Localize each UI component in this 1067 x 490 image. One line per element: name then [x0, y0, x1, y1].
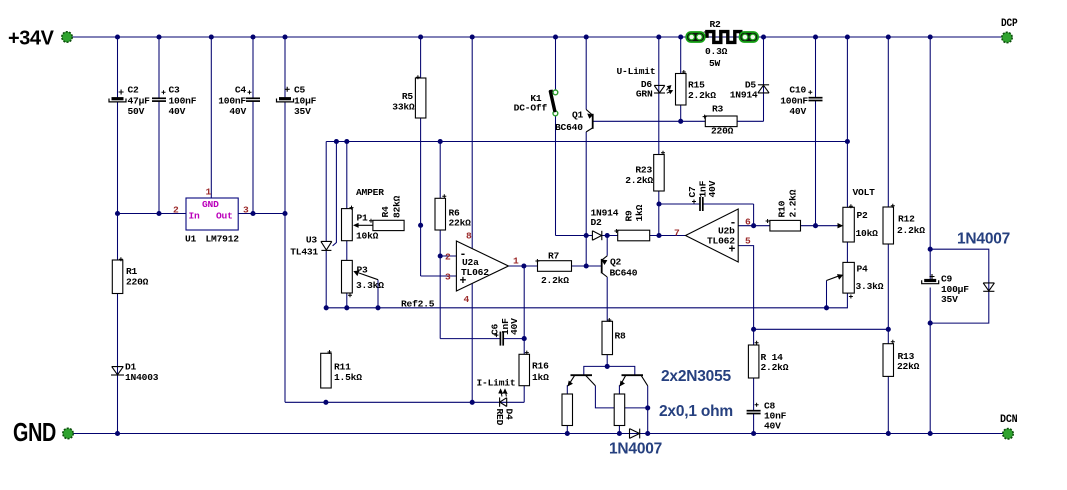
svg-text:2.2kΩ: 2.2kΩ: [761, 362, 789, 373]
wire C9 branch x=930.2: [929, 37, 931, 279]
wire R16 x=524.2: [523, 339, 525, 355]
svg-text:R15: R15: [688, 80, 705, 91]
wire U1 pin1 branch x=211.3: [210, 37, 212, 198]
wire U2a pin3 stub: [421, 275, 457, 277]
svg-text:C9: C9: [941, 274, 953, 285]
resistor R12 2.2k: [883, 204, 895, 244]
wire top rail +34V: [72, 36, 1003, 38]
svg-text:BC640: BC640: [555, 122, 583, 133]
svg-text:DC-Off: DC-Off: [514, 103, 548, 114]
wire right 3055 collector: [647, 386, 649, 434]
junction dot U2a output: [521, 263, 526, 268]
wire Q2 collector down to R8: [606, 277, 608, 321]
diode D1 1N4003: [111, 367, 124, 375]
potentiometer P3 3.3k: [342, 260, 379, 297]
svg-text:C5: C5: [294, 85, 306, 96]
wire Q1 collector to D2 node: [585, 132, 587, 266]
svg-text:1kΩ: 1kΩ: [532, 372, 549, 383]
diode D5 1N914: [758, 85, 769, 93]
wire C10 branch x=815.5: [815, 37, 817, 98]
switch K1 blade: [549, 90, 558, 116]
junction dot R23 C7: [656, 201, 661, 206]
svg-text:RED: RED: [494, 409, 505, 426]
svg-text:2: 2: [445, 252, 451, 263]
svg-text:+: +: [460, 275, 467, 288]
TL431 U3: [321, 241, 332, 250]
svg-text:R1: R1: [126, 266, 138, 277]
wire right 3055 emitter: [618, 386, 621, 394]
svg-text:3: 3: [445, 272, 451, 283]
svg-text:1N4003: 1N4003: [125, 372, 159, 383]
svg-text:2: 2: [173, 205, 179, 216]
svg-text:R11: R11: [334, 362, 351, 373]
wire Q1 emitter from rail: [585, 37, 587, 110]
svg-text:P2: P2: [857, 210, 869, 221]
junction dot y329 right: [886, 327, 891, 332]
wire TL431 branch x=326.2: [325, 142, 327, 242]
svg-text:47µF: 47µF: [128, 96, 151, 107]
resistor R3 220 horizontal: [703, 115, 738, 127]
svg-text:R5: R5: [402, 91, 414, 102]
wire R10 to P2 wiper: [801, 225, 840, 227]
svg-text:3: 3: [243, 205, 249, 216]
resistor R11 1.5k: [321, 350, 332, 388]
svg-text:C7: C7: [687, 186, 698, 198]
svg-text:35V: 35V: [941, 294, 958, 305]
resistor R1 220: [112, 257, 123, 293]
svg-text:R23: R23: [635, 165, 652, 176]
svg-text:VOLT: VOLT: [853, 187, 876, 198]
svg-text:1N914: 1N914: [730, 90, 758, 101]
resistor emitter 0.1ohm right: [614, 394, 625, 426]
junction dots top rail: [115, 34, 120, 39]
resistor R16 1k: [519, 351, 530, 386]
svg-text:50V: 50V: [128, 106, 145, 117]
svg-text:40V: 40V: [169, 106, 186, 117]
svg-text:6: 6: [745, 217, 751, 228]
junction dots mid bus y141: [334, 139, 339, 144]
diode D2 1N914: [592, 231, 601, 240]
svg-text:P4: P4: [857, 264, 869, 275]
transistor 2N3055 right: [620, 375, 648, 386]
capacitor C8 10nF: [747, 403, 761, 414]
wire bottom rail GND: [73, 433, 1003, 435]
svg-text:5: 5: [745, 236, 751, 247]
diode D6 LED GRN: [654, 85, 672, 93]
svg-text:1: 1: [206, 187, 212, 198]
svg-text:100nF: 100nF: [218, 96, 246, 107]
wire U2b pin6 stub: [738, 225, 770, 227]
potentiometer P4 3.3k: [827, 262, 855, 298]
svg-text:Ref2.5: Ref2.5: [401, 299, 435, 310]
resistor R8: [602, 318, 613, 355]
svg-text:33kΩ: 33kΩ: [392, 102, 415, 113]
svg-text:7: 7: [674, 228, 680, 239]
potentiometer P1 10k: [342, 206, 373, 241]
wire R7 to Q2 base: [572, 265, 602, 267]
resistor R23 2.2k: [654, 151, 665, 191]
junction dot pin4 bottom: [470, 400, 475, 405]
svg-text:GRN: GRN: [636, 89, 653, 100]
capacitor C10 100nF: [808, 90, 822, 100]
resistor R4 82k horizontal: [369, 219, 404, 231]
svg-text:10kΩ: 10kΩ: [856, 228, 879, 239]
svg-text:40V: 40V: [509, 318, 520, 335]
junction dots C9 loop: [928, 247, 933, 252]
svg-text:AMPER: AMPER: [356, 187, 384, 198]
svg-text:220Ω: 220Ω: [126, 277, 149, 288]
svg-text:R7: R7: [548, 251, 560, 262]
svg-text:R12: R12: [898, 214, 915, 225]
junction dot 3055 collector node: [645, 405, 650, 410]
junction dots Ref rail: [324, 305, 329, 310]
svg-text:40V: 40V: [707, 180, 718, 197]
resistor R15 2.2k: [676, 70, 687, 105]
junction dot U2a pin2 node: [438, 253, 443, 258]
wire 2N3055 base bus: [584, 366, 635, 375]
junction dot R7 Q2 base: [584, 263, 589, 268]
capacitor C9 100uF electrolytic: [922, 274, 939, 284]
svg-text:1kΩ: 1kΩ: [634, 204, 645, 221]
junction dot R4 node: [418, 223, 423, 228]
diode 1N4007 bottom: [630, 429, 640, 439]
svg-text:8: 8: [466, 231, 472, 242]
wire R6 branch x=440.2: [439, 142, 441, 199]
svg-text:C4: C4: [235, 85, 247, 96]
svg-text:40V: 40V: [789, 106, 806, 117]
svg-text:GND: GND: [13, 419, 56, 447]
svg-text:Q2: Q2: [610, 257, 622, 268]
svg-text:220Ω: 220Ω: [711, 126, 734, 137]
wire R23 bottom node to C7: [659, 203, 700, 205]
wire C2 branch x=117.5: [117, 37, 119, 97]
junction dot R11 bottom: [323, 400, 328, 405]
capacitor C5 10uF electrolytic: [277, 87, 294, 102]
diode 1N4007 right loop: [983, 283, 994, 291]
wire TL431 ref x=336.4: [333, 142, 337, 246]
svg-text:82kΩ: 82kΩ: [392, 195, 403, 218]
svg-text:C6: C6: [490, 323, 501, 335]
svg-text:3.3kΩ: 3.3kΩ: [356, 280, 384, 291]
svg-text:DCN: DCN: [1000, 414, 1018, 426]
terminal GND: [63, 428, 73, 438]
junction dot R10 C10: [813, 223, 818, 228]
wire U2a output branch x=524.2: [508, 265, 537, 267]
junction dots D2 row: [584, 233, 589, 238]
wire C4 branch x=253: [252, 37, 254, 98]
resistor R6 22k: [435, 194, 446, 230]
shunt R2: [686, 30, 758, 42]
junction dot R14 top: [751, 327, 756, 332]
wire C6 row y=338.6: [440, 338, 500, 340]
capacitor C4 100nF: [246, 90, 260, 101]
wire Q1 base row y=121.3: [593, 120, 706, 122]
svg-text:R3: R3: [712, 104, 724, 115]
svg-text:0.3Ω: 0.3Ω: [705, 46, 728, 57]
svg-text:R4: R4: [380, 206, 391, 218]
svg-text:U3: U3: [306, 235, 318, 246]
wire Ref2.5 rail y=307.8: [326, 307, 826, 309]
wire U2a pin8 x=472.2: [471, 37, 473, 249]
svg-text:C10: C10: [789, 85, 806, 96]
svg-text:35V: 35V: [294, 106, 311, 117]
svg-text:2.2kΩ: 2.2kΩ: [897, 225, 925, 236]
resistor R10 2.2k horizontal: [766, 219, 801, 231]
svg-text:DCP: DCP: [1001, 18, 1018, 30]
svg-text:4: 4: [464, 294, 470, 305]
svg-text:P3: P3: [357, 265, 369, 276]
wire R15 branch x=680.7: [680, 37, 682, 74]
svg-text:In: In: [189, 211, 201, 222]
transistor Q2 BC640: [602, 256, 608, 277]
wire 1N4007 loop: [930, 249, 989, 323]
wire P2 branch x=847.4: [846, 37, 848, 207]
svg-text:+: +: [729, 244, 736, 257]
svg-text:-: -: [460, 249, 467, 262]
resistor R7 2.2k horizontal: [535, 259, 571, 271]
resistor R13 22k: [883, 340, 895, 377]
resistor R14 2.2k: [748, 341, 759, 378]
svg-text:2x2N3055: 2x2N3055: [661, 368, 732, 385]
svg-text:2x0,1 ohm: 2x0,1 ohm: [659, 403, 733, 420]
svg-text:2.2kΩ: 2.2kΩ: [541, 275, 569, 286]
junction dot R16 top node: [522, 336, 527, 341]
wire R14 to C8 x=753.6: [753, 378, 755, 411]
wire P1 P3 branch x=346.8: [346, 142, 348, 209]
svg-text:2.2kΩ: 2.2kΩ: [688, 90, 716, 101]
wire R3 right to D5: [737, 120, 763, 122]
junction dots bottom rail: [115, 431, 120, 436]
svg-text:LM7912: LM7912: [206, 234, 240, 245]
wire D6 R23 branch x=658.8: [658, 37, 660, 155]
transistor Q1 BC640: [586, 110, 593, 132]
wire P3 wiper drop x=378: [377, 280, 379, 308]
svg-text:U-Limit: U-Limit: [617, 66, 656, 77]
svg-text:R2: R2: [710, 19, 722, 30]
wire U1 row y=213.5: [118, 213, 187, 215]
svg-text:1N4007: 1N4007: [957, 231, 1010, 248]
capacitor C6 1nF: [494, 332, 503, 346]
svg-text:P1: P1: [357, 213, 369, 224]
svg-text:22kΩ: 22kΩ: [449, 218, 472, 229]
junction dot Q1 base R15: [678, 119, 683, 124]
terminal +34V: [62, 32, 72, 42]
wire Q2 emitter up: [606, 236, 608, 256]
svg-text:10kΩ: 10kΩ: [356, 231, 379, 242]
wire mid bus y=141.5: [326, 141, 847, 143]
svg-text:100nF: 100nF: [780, 96, 808, 107]
svg-text:C3: C3: [169, 85, 181, 96]
transistor 2N3055 left: [568, 375, 595, 386]
svg-text:3.3kΩ: 3.3kΩ: [856, 281, 884, 292]
wire P4 bottom L: [827, 293, 848, 308]
wire C5 branch x=285: [284, 37, 286, 97]
capacitor C3 100nF: [152, 90, 166, 101]
svg-text:R16: R16: [532, 361, 549, 372]
wire R5 branch x=420.6: [420, 37, 422, 276]
wire C3 branch x=159: [158, 37, 160, 98]
wire R8 to base node: [606, 355, 608, 367]
resistor R5 33k: [415, 75, 426, 118]
junction dot U2b pin6: [751, 223, 756, 228]
diode D4 LED RED: [499, 390, 507, 407]
wire negative rail y=402.3: [285, 401, 524, 403]
wire left 3055 collector path: [595, 386, 647, 408]
wire Q2 emitter resistor left: [566, 386, 569, 394]
svg-text:100nF: 100nF: [169, 96, 197, 107]
svg-text:2.2kΩ: 2.2kΩ: [625, 175, 653, 186]
junction dot 3055 base node: [605, 364, 610, 369]
svg-text:R9: R9: [624, 210, 635, 222]
svg-text:40V: 40V: [229, 106, 246, 117]
op-amp U2b TL062: [686, 209, 739, 262]
potentiometer P2 10k: [838, 204, 855, 242]
wire P4 wiper drop x=826.5: [826, 281, 828, 308]
svg-text:+34V: +34V: [8, 28, 55, 50]
svg-text:D1: D1: [125, 362, 137, 373]
wire R12 R13 branch x=888.3: [887, 37, 889, 207]
svg-text:TL431: TL431: [290, 247, 318, 258]
svg-text:R10: R10: [777, 200, 788, 217]
junction dots U1 row: [115, 211, 120, 216]
svg-text:1N4007: 1N4007: [609, 441, 662, 458]
wire U2a pin2 stub: [440, 255, 456, 257]
svg-text:I-Limit: I-Limit: [477, 378, 516, 389]
svg-text:D2: D2: [591, 217, 603, 228]
capacitor C2 47uF electrolytic: [109, 90, 126, 102]
svg-text:2.2kΩ: 2.2kΩ: [788, 189, 799, 217]
svg-text:Q1: Q1: [572, 110, 584, 121]
svg-text:Out: Out: [216, 211, 233, 222]
svg-text:1.5kΩ: 1.5kΩ: [334, 372, 362, 383]
wire feedback row y=329.3: [754, 328, 889, 330]
resistor emitter 0.1ohm left: [562, 394, 573, 426]
svg-text:10µF: 10µF: [294, 96, 317, 107]
resistor R9 1k horizontal: [614, 229, 649, 241]
op-amp U2a TL062: [456, 241, 508, 291]
svg-text:1: 1: [513, 256, 519, 267]
svg-text:U1: U1: [185, 234, 197, 245]
wire D2 node row y=235.5: [586, 235, 592, 237]
wire U2a pin4 x=472.2: [471, 283, 473, 402]
svg-text:GND: GND: [202, 199, 219, 210]
svg-text:BC640: BC640: [610, 268, 638, 279]
wire K1 branch x=555.5: [555, 37, 557, 90]
IC U1 LM7912 box: [186, 198, 238, 230]
capacitor C7 1nF: [692, 197, 703, 211]
svg-text:C2: C2: [128, 85, 140, 96]
wire U2b pin5 stub: [738, 246, 753, 345]
svg-text:22kΩ: 22kΩ: [897, 361, 920, 372]
terminal DCN: [1003, 429, 1013, 439]
svg-text:5W: 5W: [709, 58, 721, 69]
svg-text:R8: R8: [615, 331, 627, 342]
terminal DCP: [1002, 32, 1012, 42]
svg-text:-: -: [730, 217, 737, 230]
svg-text:40V: 40V: [764, 421, 781, 432]
